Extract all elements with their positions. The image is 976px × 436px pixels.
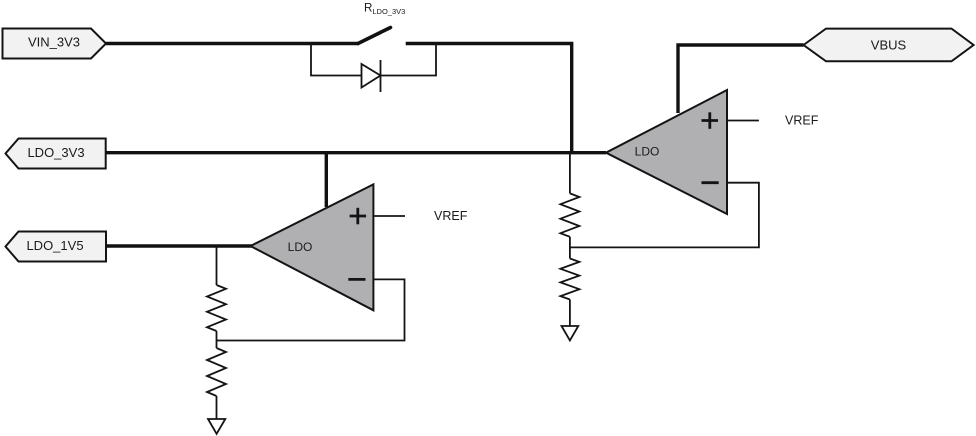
port VIN_3V3 [3, 29, 107, 59]
switch R_LDO_3V3 arm [358, 28, 391, 44]
wire between right divider resistors [569, 237, 571, 259]
wire switch to corner and down to bus [406, 44, 572, 153]
wire bus LDO_3V3 to right op-amp [106, 151, 606, 154]
resistor R2b (left divider bottom) [207, 348, 226, 396]
wire U1 plus pin to VREF [373, 215, 405, 217]
wire LDO_1V5 to op-amp U1 [106, 244, 252, 247]
wire U2 plus pin to VREF [727, 120, 759, 122]
wire bus to left op-amp input [325, 153, 328, 207]
port VBUS [804, 29, 974, 62]
ground right [562, 326, 579, 341]
svg-text:LDO: LDO [635, 144, 660, 158]
diode D1 [362, 60, 381, 92]
wire to right ground [569, 300, 571, 327]
svg-text:VBUS: VBUS [871, 38, 907, 53]
wire U1 minus feedback [217, 279, 405, 340]
resistor R2a (left divider top) [207, 285, 226, 331]
resistor R3b (right divider bottom) [560, 259, 579, 300]
wire U2 output to VBUS [678, 45, 804, 113]
ground left [208, 419, 225, 434]
svg-text:VIN_3V3: VIN_3V3 [28, 35, 80, 50]
svg-text:VREF: VREF [785, 114, 819, 128]
wire bypass left branch [311, 42, 362, 76]
op-amp U1 (left LDO) [251, 184, 374, 310]
wire U2 minus feedback [570, 183, 759, 248]
wire bypass right branch [381, 42, 437, 76]
svg-text:LDO: LDO [288, 240, 313, 254]
wire VIN_3V3 to switch [106, 42, 359, 45]
op-amp U2 (right LDO) [606, 90, 727, 214]
port LDO_1V5 [6, 232, 107, 262]
wire to left ground [216, 396, 218, 419]
svg-text:VREF: VREF [434, 209, 468, 223]
port LDO_3V3 [6, 139, 106, 169]
wire between left divider resistors [216, 331, 218, 348]
wire divider tap from LDO_1V5 net [216, 246, 218, 285]
wire right divider from bus [569, 153, 571, 193]
svg-text:LDO_1V5: LDO_1V5 [26, 238, 83, 253]
svg-text:LDO_3V3: LDO_3V3 [27, 145, 84, 160]
resistor R3a (right divider top) [560, 193, 579, 236]
